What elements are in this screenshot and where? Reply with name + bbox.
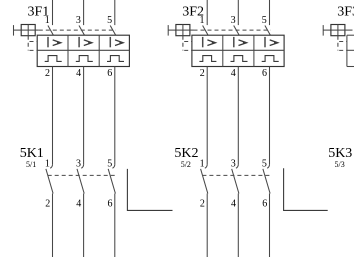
- breaker 3F2 magnetic trip I&gt; pole 2: [234, 37, 247, 47]
- breaker 3F3 trip linkage vertical (dashed): [337, 36, 339, 51]
- svg-text:2: 2: [45, 198, 50, 209]
- contactor 5K2 pole 3 moving contact blade: [263, 169, 270, 194]
- contactor 5K2 pole linkage (dashed): [202, 174, 269, 176]
- breaker 3F3 body (clipped): [347, 35, 354, 66]
- breaker 3F1 magnetic trip I&gt; pole 1: [48, 37, 61, 47]
- wire: 3F1 pin 6 to 5K1: [114, 67, 116, 165]
- breaker 3F1 pole 1 contact blade: [48, 26, 54, 36]
- breaker 3F2 magnetic trip I&gt; pole 3: [265, 37, 278, 47]
- svg-text:4: 4: [76, 198, 81, 209]
- contactor 5K1 pole 3 moving contact blade: [108, 169, 115, 194]
- svg-text:5/3: 5/3: [335, 160, 345, 169]
- contactor 5K1 pole 2 moving contact blade: [77, 169, 84, 194]
- svg-text:5K1: 5K1: [20, 146, 44, 161]
- breaker 3F1 thermal trip pole 2: [76, 56, 93, 62]
- wire: supply to 3F1 pin 3: [83, 0, 85, 25]
- contactor 5K2 pole 1 moving contact blade: [201, 169, 208, 194]
- contactor 5K1 pole 2 fixed contact hook: [81, 165, 83, 168]
- wire: 5K2 output bend to motor M2: [284, 168, 328, 210]
- breaker 3F2 thermal trip pole 1: [199, 56, 216, 62]
- svg-text:2: 2: [45, 68, 50, 79]
- svg-text:1: 1: [200, 159, 205, 170]
- svg-text:3: 3: [76, 15, 81, 26]
- contactor 5K1 pole linkage (dashed): [48, 174, 115, 176]
- contactor 5K1 pole 3 fixed contact hook: [112, 165, 114, 168]
- breaker 3F1 manual actuator handle: [14, 25, 39, 36]
- breaker 3F2 body: [192, 35, 284, 66]
- breaker 3F2 manual actuator handle: [168, 25, 193, 36]
- breaker 3F3 trip linkage stubs to body (dashed): [339, 42, 347, 51]
- svg-text:5K2: 5K2: [174, 146, 198, 161]
- svg-text:2: 2: [200, 68, 205, 79]
- svg-text:5K3: 5K3: [328, 146, 352, 161]
- wire: 5K1 pin 2 to motor: [52, 194, 54, 257]
- contactor 5K1 pole 1 moving contact blade: [46, 169, 53, 194]
- svg-text:5: 5: [107, 15, 112, 26]
- svg-text:5: 5: [262, 15, 267, 26]
- breaker 3F2 pole linkage (dashed): [194, 29, 271, 31]
- svg-text:1: 1: [200, 15, 205, 26]
- contactor 5K2 pole 2 fixed contact hook: [236, 165, 238, 168]
- svg-text:4: 4: [231, 198, 236, 209]
- contactor 5K2 pole 1 fixed contact hook: [205, 165, 207, 168]
- svg-text:5/2: 5/2: [181, 160, 191, 169]
- wire: 3F2 pin 4 to 5K2: [237, 67, 239, 165]
- wire: supply to 3F2 pin 3: [237, 0, 239, 25]
- breaker 3F2 magnetic trip I&gt; pole 1: [203, 37, 216, 47]
- breaker 3F2 pole 2 contact blade: [234, 26, 240, 36]
- svg-text:6: 6: [108, 198, 113, 209]
- svg-text:3: 3: [76, 159, 81, 170]
- svg-text:3: 3: [231, 159, 236, 170]
- breaker 3F2 pole 1 contact blade: [203, 26, 209, 36]
- breaker 3F2 thermal trip pole 2: [231, 56, 248, 62]
- wire: supply to 3F1 pin 1: [52, 0, 54, 25]
- wire: 3F2 pin 6 to 5K2: [269, 67, 271, 165]
- breaker 3F2 thermal trip pole 3: [262, 56, 279, 62]
- breaker 3F1 trip linkage stubs to body (dashed): [30, 42, 38, 51]
- breaker 3F3 manual actuator handle: [323, 25, 348, 36]
- contactor 5K1 pole 1 fixed contact hook: [50, 165, 52, 168]
- svg-text:1: 1: [45, 159, 50, 170]
- breaker 3F1 thermal trip pole 3: [107, 56, 124, 62]
- svg-text:4: 4: [231, 68, 236, 79]
- wire: supply to 3F2 pin 1: [206, 0, 208, 25]
- contactor 5K2 pole 2 moving contact blade: [232, 169, 239, 194]
- svg-text:1: 1: [45, 15, 50, 26]
- breaker 3F2 pole 3 contact blade: [265, 26, 271, 36]
- svg-text:5: 5: [107, 159, 112, 170]
- svg-text:3F3: 3F3: [337, 4, 354, 19]
- wire: 5K1 pin 6 to motor: [114, 194, 116, 257]
- breaker 3F1 body: [37, 35, 129, 66]
- wire: 3F1 pin 4 to 5K1: [83, 67, 85, 165]
- wire: 3F2 pin 2 to 5K2: [206, 67, 208, 165]
- breaker 3F3 pole linkage (dashed, clipped): [349, 29, 354, 31]
- wire: supply to 3F1 pin 5: [114, 0, 116, 25]
- svg-text:5/1: 5/1: [26, 160, 36, 169]
- breaker 3F1 magnetic trip I&gt; pole 3: [110, 37, 123, 47]
- breaker 3F1 magnetic trip I&gt; pole 2: [79, 37, 92, 47]
- svg-text:6: 6: [262, 68, 267, 79]
- wire: 5K2 pin 2 to motor: [206, 194, 208, 257]
- wire: 5K2 pin 6 to motor: [269, 194, 271, 257]
- wire: 5K1 pin 4 to motor: [83, 194, 85, 257]
- svg-text:2: 2: [200, 198, 205, 209]
- svg-text:4: 4: [76, 68, 81, 79]
- breaker 3F2 trip linkage stubs to body (dashed): [184, 42, 192, 51]
- contactor 5K2 pole 3 fixed contact hook: [267, 165, 269, 168]
- svg-text:5: 5: [262, 159, 267, 170]
- svg-text:6: 6: [262, 198, 267, 209]
- breaker 3F1 thermal trip pole 1: [45, 56, 62, 62]
- svg-text:3: 3: [231, 15, 236, 26]
- wire: 5K2 pin 4 to motor: [237, 194, 239, 257]
- breaker 3F1 pole 2 contact blade: [79, 26, 85, 36]
- breaker 3F2 trip linkage vertical (dashed): [182, 36, 184, 51]
- breaker 3F1 trip linkage vertical (dashed): [27, 36, 29, 51]
- breaker 3F1 pole 3 contact blade: [110, 26, 116, 36]
- breaker 3F1 pole linkage (dashed): [39, 29, 116, 31]
- wire: 3F1 pin 2 to 5K1: [52, 67, 54, 165]
- svg-text:6: 6: [107, 68, 112, 79]
- wire: supply to 3F2 pin 5: [269, 0, 271, 25]
- wire: 5K1 output bend to motor M1: [127, 169, 172, 211]
